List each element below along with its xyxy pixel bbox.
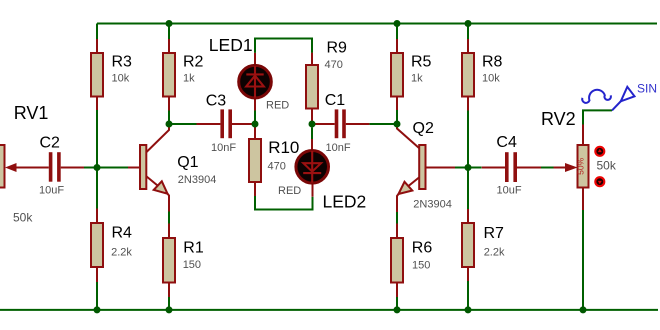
svg-text:R5: R5 [411,54,432,71]
svg-text:10nF: 10nF [326,142,351,154]
svg-text:10nF: 10nF [211,142,236,154]
svg-text:R6: R6 [412,240,433,257]
svg-text:Q1: Q1 [177,154,198,171]
svg-text:R8: R8 [482,54,503,71]
svg-text:2N3904: 2N3904 [178,174,217,186]
svg-text:R2: R2 [183,54,204,71]
svg-text:10k: 10k [482,73,500,85]
svg-text:R1: R1 [183,240,204,257]
svg-text:RV1: RV1 [14,103,49,123]
svg-text:LED1: LED1 [209,35,253,55]
svg-text:R7: R7 [484,225,505,242]
svg-text:2.2k: 2.2k [484,246,505,258]
svg-text:C4: C4 [496,134,517,151]
svg-text:10uF: 10uF [39,184,64,196]
svg-text:1k: 1k [411,73,423,85]
svg-text:R9: R9 [327,40,348,57]
svg-text:RV2: RV2 [541,109,576,129]
svg-text:470: 470 [325,59,343,71]
svg-text:R10: R10 [268,138,299,157]
svg-text:50%: 50% [575,157,585,174]
svg-text:Q2: Q2 [413,120,434,137]
svg-text:LED2: LED2 [323,191,367,211]
svg-text:C2: C2 [40,134,61,151]
svg-text:10k: 10k [112,73,130,85]
svg-text:50k: 50k [13,211,33,225]
svg-text:1k: 1k [183,73,195,85]
svg-text:2.2k: 2.2k [111,246,132,258]
svg-text:470: 470 [268,160,286,172]
svg-text:R3: R3 [112,54,133,71]
svg-text:50k: 50k [597,159,617,173]
svg-text:R4: R4 [112,225,133,242]
svg-text:RED: RED [266,100,289,112]
svg-text:RED: RED [278,185,301,197]
svg-text:2N3904: 2N3904 [413,198,452,210]
svg-text:C3: C3 [206,92,227,109]
svg-text:150: 150 [412,259,430,271]
svg-text:C1: C1 [325,92,346,109]
svg-text:150: 150 [183,259,201,271]
svg-text:SIN: SIN [637,82,657,96]
svg-text:10uF: 10uF [497,185,522,197]
